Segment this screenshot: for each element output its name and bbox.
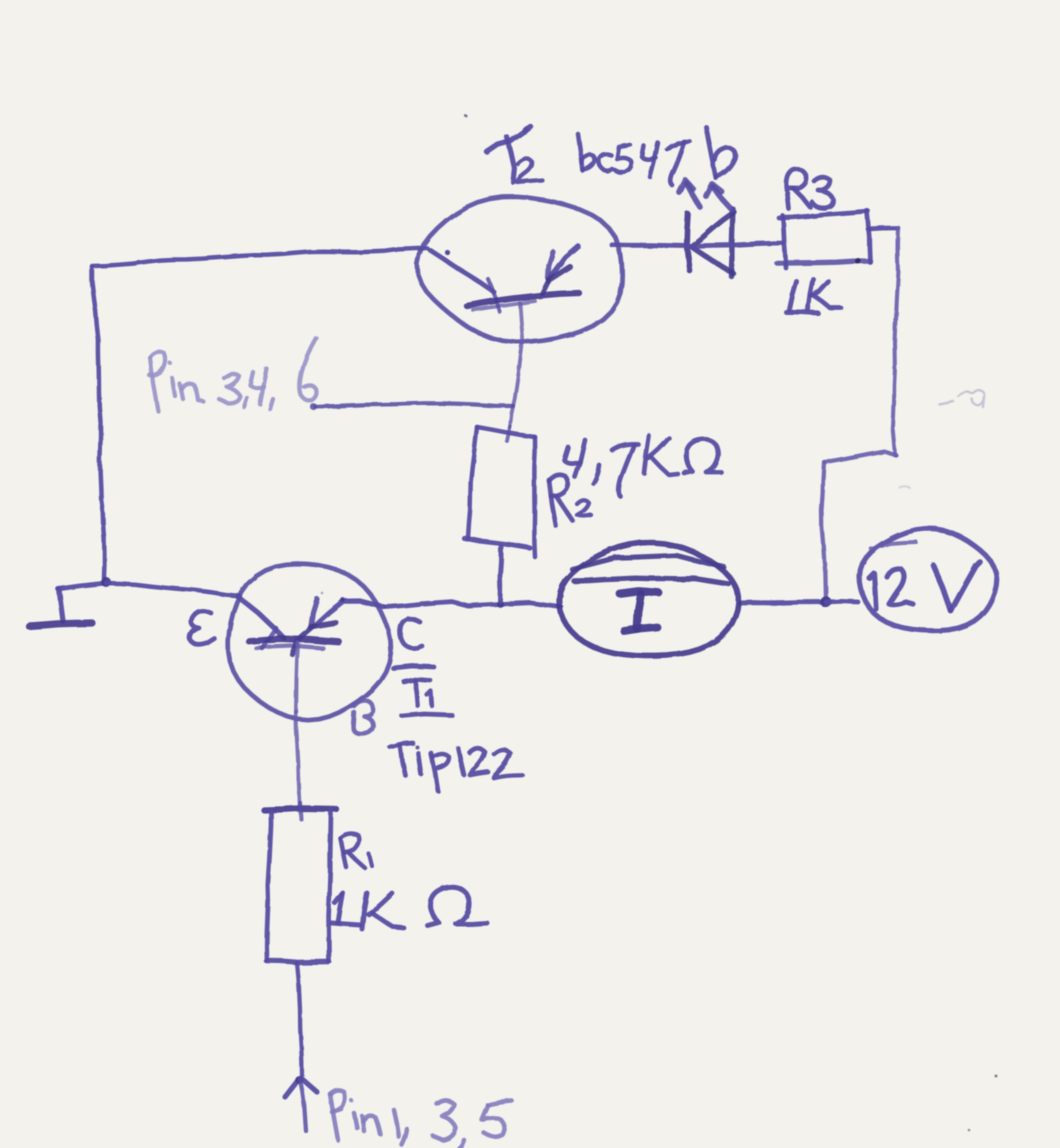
node junction left xyxy=(101,577,111,587)
source 12V double stroke xyxy=(871,542,916,549)
wire meter to 12V node xyxy=(740,602,826,603)
meter I letter xyxy=(620,592,659,632)
transistor T1 circle xyxy=(228,564,391,720)
label T1 xyxy=(402,679,452,716)
diode D1 cathode bar xyxy=(687,214,690,271)
pencil scribble xyxy=(899,390,984,488)
wire node to 12V source xyxy=(826,599,858,604)
label Pin 3,4,6 xyxy=(149,338,317,411)
paper specks xyxy=(321,115,998,1132)
source 12V outline xyxy=(860,529,997,631)
diode D1 arrow 2 xyxy=(706,184,732,210)
resistor R3 body xyxy=(777,211,870,268)
transistor T2 collector arrow xyxy=(543,246,579,293)
label T2 xyxy=(487,127,542,182)
label R3 value 1K xyxy=(786,279,841,313)
resistor R2 body xyxy=(464,427,535,557)
label E xyxy=(190,611,214,644)
label R2 xyxy=(549,475,591,526)
label R2 value 4,7KOhm xyxy=(564,436,721,496)
wire R3 to +12V rail xyxy=(868,228,898,229)
transistor T2 base lead (to R2) xyxy=(510,303,523,427)
transistor T2 base bar xyxy=(467,293,579,310)
wire Pin 3,4,6 to T2 base xyxy=(310,403,513,410)
transistor T1 base lead xyxy=(296,643,300,808)
wire ground to node xyxy=(58,583,106,589)
wire left vertical (emitter bus) xyxy=(92,267,104,578)
wire R2 to rail xyxy=(500,547,501,601)
transistor T2 emitter line xyxy=(430,249,500,312)
transistor T1 emitter line xyxy=(238,597,284,648)
transistor T2 circle xyxy=(417,197,622,342)
wire right vertical lower xyxy=(822,462,827,601)
wire jog left xyxy=(825,451,896,462)
meter I inner top line xyxy=(572,555,724,569)
label Tip122 xyxy=(390,743,522,791)
transistor T1 base bar xyxy=(249,639,339,648)
transistor T1 collector arrow xyxy=(292,598,384,654)
wire T2 collector to diode xyxy=(612,245,688,246)
wire T1 collector to R2/meter xyxy=(386,602,561,607)
node R2 junction xyxy=(497,601,504,608)
wire R1 to pins xyxy=(297,963,302,1075)
node junction 12V xyxy=(820,596,831,607)
arrow to Pin 1,3,5 xyxy=(285,1076,317,1131)
ground symbol xyxy=(29,589,92,626)
meter I chord line xyxy=(574,578,729,584)
diode D1 triangle xyxy=(692,209,734,276)
label R1 value 1KOhm xyxy=(332,887,487,929)
label C xyxy=(393,619,434,668)
wire top horizontal (left rail to T2 emitter) xyxy=(92,248,427,266)
label bc547b xyxy=(578,127,735,185)
label R3 xyxy=(787,169,833,209)
label B xyxy=(353,701,373,734)
label Pin 1,3,5 xyxy=(330,1090,512,1148)
resistor R1 body xyxy=(264,803,336,963)
label R1 xyxy=(340,834,372,868)
label 12V xyxy=(869,562,980,611)
wire right vertical xyxy=(893,228,898,455)
meter I outline xyxy=(559,543,738,656)
diode D1 arrow 1 xyxy=(679,180,700,207)
wire diode to R3 xyxy=(690,243,783,246)
wire node to T1 emitter xyxy=(106,583,240,596)
